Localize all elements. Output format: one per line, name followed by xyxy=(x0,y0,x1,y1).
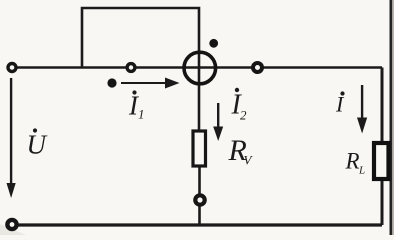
wire wattmeter vertical through to R_V xyxy=(198,52,201,130)
arrow I1 xyxy=(121,78,180,89)
svg-text:1: 1 xyxy=(138,107,145,122)
terminal node left-bottom xyxy=(7,220,16,229)
wire bottom horizontal xyxy=(12,223,382,226)
polarity dot at wattmeter xyxy=(209,39,218,48)
label R_V xyxy=(228,134,254,168)
wire R_V bottom to node and bottom rail xyxy=(198,167,201,225)
label I2 xyxy=(231,88,248,123)
polarity dot left xyxy=(107,78,116,87)
wire right vertical xyxy=(381,68,384,226)
wattmeter U1 xyxy=(184,52,216,84)
node on top wire xyxy=(127,64,135,72)
label I load xyxy=(335,91,345,116)
resistor R_V xyxy=(193,131,206,166)
label I1 xyxy=(128,90,145,121)
terminal node left-top xyxy=(8,64,16,72)
photo bottom-left corner shade xyxy=(0,224,26,235)
label U xyxy=(27,128,48,159)
wire voltage-coil loop (top rectangle) xyxy=(82,8,199,68)
node below R_V xyxy=(195,195,204,204)
resistor R_L xyxy=(374,143,389,179)
svg-text:2: 2 xyxy=(240,108,247,123)
photo right edge artifact xyxy=(390,0,393,235)
arrow U voltage xyxy=(7,78,16,198)
node right of wattmeter xyxy=(253,63,262,72)
label R_L xyxy=(345,149,366,177)
svg-text:L: L xyxy=(358,165,365,177)
wire top horizontal xyxy=(12,66,382,69)
arrow I load xyxy=(357,85,367,134)
svg-text:R: R xyxy=(345,149,360,174)
arrow I2 xyxy=(213,103,223,141)
svg-text:U: U xyxy=(27,130,48,160)
